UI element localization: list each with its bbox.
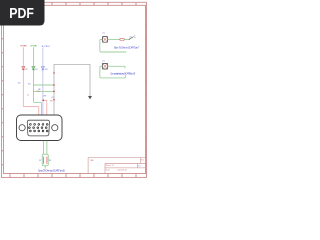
svg-text:D2: D2 [35, 69, 37, 71]
svg-text:K2: K2 [103, 60, 105, 62]
svg-text:R4: R4 [28, 83, 30, 85]
svg-text:1/1: 1/1 [138, 165, 140, 167]
svg-text:Rev: Rev [141, 159, 144, 161]
svg-text:G-Y GRN: G-Y GRN [30, 46, 37, 48]
svg-text:R8: R8 [49, 160, 51, 162]
svg-text:PDF: PDF [9, 6, 34, 22]
svg-text:K1: K1 [103, 33, 105, 35]
svg-text:Sheet: 1/1: Sheet: 1/1 [106, 164, 114, 167]
svg-text:D1: D1 [25, 69, 27, 71]
svg-text:1k: 1k [27, 94, 29, 96]
svg-text:D3: D3 [45, 69, 47, 71]
svg-text:TBD: TBD [90, 160, 95, 162]
svg-text:C1: C1 [51, 97, 53, 99]
svg-text:R7: R7 [39, 160, 41, 162]
svg-text:R-Y RED: R-Y RED [20, 46, 27, 48]
svg-text:S1: S1 [130, 36, 132, 38]
svg-text:B-Y BLU: B-Y BLU [42, 46, 50, 48]
svg-text:Blue 75 Ohm to SCART pin 7: Blue 75 Ohm to SCART pin 7 [114, 46, 140, 49]
svg-text:2021-05-30: 2021-05-30 [118, 170, 127, 172]
svg-text:R2: R2 [18, 83, 20, 85]
svg-text:Sync (75 Ohm) to SCART pin 20: Sync (75 Ohm) to SCART pin 20 [38, 170, 66, 173]
svg-text:Date:: Date: [106, 169, 111, 172]
svg-text:Composite video to SCART pin 1: Composite video to SCART pin 19 [110, 72, 136, 75]
svg-text:R9: R9 [44, 96, 46, 98]
